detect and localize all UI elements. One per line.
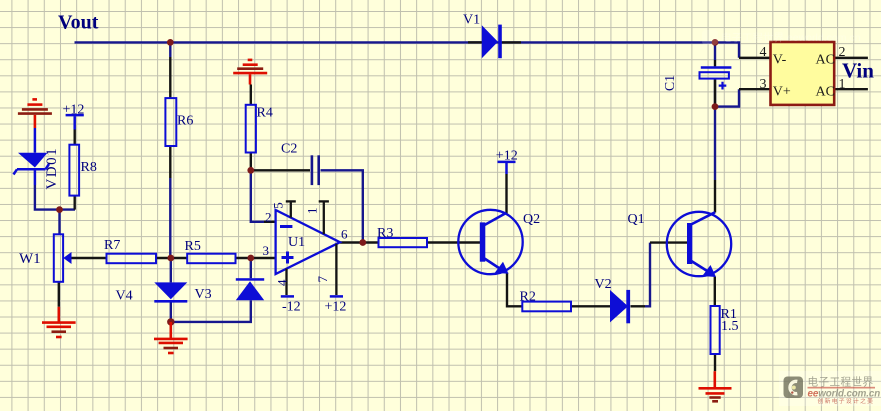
svg-text:2: 2 xyxy=(839,45,846,60)
svg-text:1: 1 xyxy=(304,208,319,215)
svg-text:VD01: VD01 xyxy=(44,147,60,190)
svg-text:3: 3 xyxy=(760,77,767,92)
svg-text:V3: V3 xyxy=(195,287,212,302)
svg-text:6: 6 xyxy=(341,227,348,242)
svg-text:V+: V+ xyxy=(773,84,791,99)
svg-text:R8: R8 xyxy=(81,160,97,175)
svg-text:7: 7 xyxy=(315,275,330,282)
svg-text:+12: +12 xyxy=(63,102,85,117)
svg-text:U1: U1 xyxy=(288,235,305,250)
svg-text:创新电子设计之美: 创新电子设计之美 xyxy=(818,397,875,405)
svg-text:C2: C2 xyxy=(281,142,297,157)
svg-text:R7: R7 xyxy=(104,238,120,253)
svg-text:R5: R5 xyxy=(185,239,201,254)
svg-text:Vout: Vout xyxy=(58,12,99,34)
svg-text:Q1: Q1 xyxy=(628,212,645,227)
svg-text:V-: V- xyxy=(773,52,787,67)
svg-text:电子工程世界 eeworld.com.cn: 电子工程世界 eeworld.com.cn xyxy=(721,31,861,44)
svg-text:V4: V4 xyxy=(116,289,133,304)
svg-text:电子工程世界: 电子工程世界 xyxy=(808,375,874,388)
svg-text:2: 2 xyxy=(265,210,272,225)
svg-text:V1: V1 xyxy=(463,12,480,27)
svg-text:Vin: Vin xyxy=(842,59,874,83)
svg-text:3: 3 xyxy=(263,243,270,258)
svg-text:4: 4 xyxy=(274,279,289,286)
svg-text:R3: R3 xyxy=(377,226,393,241)
svg-text:R2: R2 xyxy=(520,290,536,305)
svg-text:+12: +12 xyxy=(325,299,347,314)
svg-text:AC: AC xyxy=(816,84,835,99)
svg-text:4: 4 xyxy=(760,45,767,60)
svg-text:R4: R4 xyxy=(257,106,273,121)
svg-text:AC: AC xyxy=(816,52,835,67)
svg-text:eeworld.com.cn: eeworld.com.cn xyxy=(808,389,881,400)
svg-text:W1: W1 xyxy=(19,251,41,267)
svg-text:C1: C1 xyxy=(663,75,678,91)
svg-text:V2: V2 xyxy=(595,277,612,292)
svg-text:-12: -12 xyxy=(282,299,301,314)
svg-text:Q2: Q2 xyxy=(523,212,540,227)
svg-text:R6: R6 xyxy=(177,114,193,129)
svg-text:1.5: 1.5 xyxy=(721,319,739,334)
svg-text:5: 5 xyxy=(271,202,286,209)
svg-text:1: 1 xyxy=(839,77,846,92)
svg-text:+12: +12 xyxy=(496,149,518,164)
